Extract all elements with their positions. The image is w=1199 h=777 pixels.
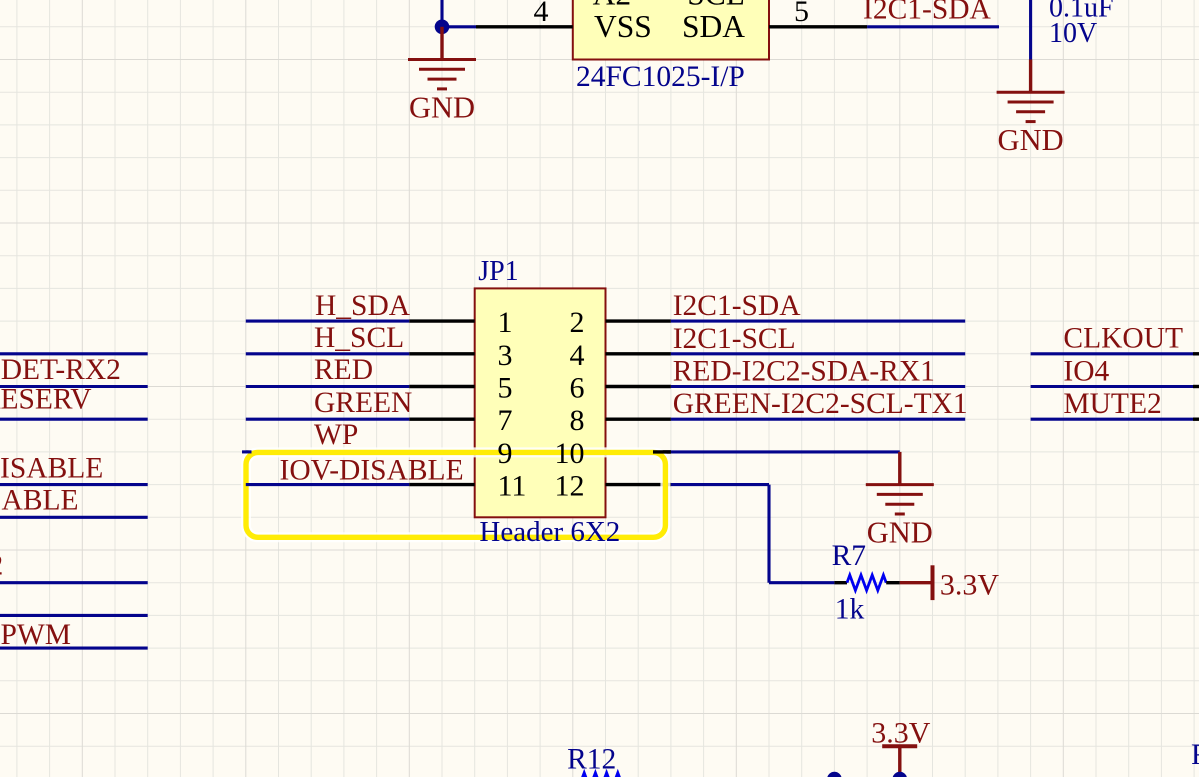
svg-text:VSS: VSS: [594, 9, 652, 44]
wire left row B: [0, 581, 148, 584]
wire RED: [246, 385, 409, 388]
junction node bottom right: [893, 772, 908, 777]
JP1 pin 5: [409, 385, 474, 388]
svg-text:H_SDA: H_SDA: [315, 290, 411, 322]
IC U1 24FC1025 body: [573, 0, 769, 60]
JP1 pin number 7: [498, 404, 513, 437]
svg-text:PWM: PWM: [1, 619, 71, 651]
pin stub at MUTE2 end: [1193, 418, 1199, 421]
svg-text:6: 6: [570, 372, 585, 405]
JP1 pin 9: [409, 450, 474, 453]
JP1 designator: [478, 256, 518, 287]
svg-text:3.3V: 3.3V: [940, 569, 1000, 602]
net label I2C1-SDA: [673, 290, 802, 322]
ground GND2: [997, 60, 1065, 158]
wire to R7: [769, 581, 834, 584]
resistor R7 left pin: [834, 581, 847, 584]
svg-text:I2C1-SCL: I2C1-SCL: [673, 323, 796, 355]
net label IO4: [1063, 355, 1109, 387]
svg-text:RED: RED: [314, 354, 373, 386]
svg-text:4: 4: [570, 339, 585, 372]
wire junction to U1 pin 4: [442, 25, 476, 28]
wire GREEN-I2C2-SCL-TX1: [671, 418, 965, 421]
JP1 pin 8: [606, 418, 671, 421]
R12 designator: [567, 744, 616, 776]
JP1 pin 2: [606, 319, 671, 322]
U1 pin name A2: [593, 0, 632, 12]
U1 pin name SDA: [682, 9, 745, 44]
wire left ESERV: [0, 418, 148, 421]
svg-text:10V: 10V: [1049, 18, 1097, 49]
JP1 pin number 3: [498, 339, 513, 372]
power 3.3V bottom label: [871, 716, 931, 749]
wire I2C1-SDA from U1 pin 5: [867, 25, 999, 28]
wire GREEN: [246, 418, 409, 421]
svg-text:GND: GND: [409, 91, 475, 125]
net label ISABLE (clipped): [0, 452, 103, 484]
svg-text:MUTE2: MUTE2: [1063, 388, 1161, 420]
net label DET-RX2: [1, 354, 121, 386]
R7 designator: [832, 540, 866, 572]
U1 value label 24FC1025-I/P: [576, 61, 745, 93]
svg-text:1: 1: [498, 306, 513, 339]
ground GND3: [866, 452, 934, 550]
capacitor voltage 10V: [1049, 18, 1097, 49]
svg-text:IOV-DISABLE: IOV-DISABLE: [0, 452, 103, 484]
wire capacitor C to GND: [1029, 0, 1032, 60]
resistor R12 zigzag (clipped): [581, 773, 620, 777]
wire pin10 to GND: [671, 450, 900, 453]
svg-text:IOV-DISABLE: IOV-DISABLE: [280, 454, 464, 486]
power 3.3V bottom bar: [882, 744, 917, 748]
net label CLKOUT: [1063, 323, 1183, 355]
wire left row C: [0, 614, 148, 617]
wire WP left nub: [242, 450, 252, 453]
wire pin12 horizontal: [671, 483, 769, 486]
capacitor value 0.1uF: [1049, 0, 1114, 23]
svg-text:3: 3: [498, 339, 513, 372]
svg-text:H_SCL: H_SCL: [314, 322, 404, 354]
R7 value 1k: [835, 593, 865, 625]
JP1 pin 10 nub: [653, 450, 671, 453]
svg-text:5: 5: [498, 372, 513, 405]
svg-text:2: 2: [0, 550, 3, 582]
JP1 pin number 9: [498, 437, 513, 470]
U1 pin 5 (SDA): [769, 25, 867, 28]
net label WP: [314, 419, 358, 451]
JP1 pin number 2: [570, 306, 585, 339]
svg-text:IO4: IO4: [1063, 355, 1109, 387]
U1 pin number 4: [534, 0, 549, 28]
net label ESERV (clipped): [0, 384, 92, 416]
JP1 pin 7: [409, 418, 474, 421]
wire MUTE2: [1031, 418, 1193, 421]
svg-text:Header 6X2: Header 6X2: [479, 516, 620, 548]
svg-text:GREEN-I2C2-SCL-TX1: GREEN-I2C2-SCL-TX1: [673, 388, 968, 420]
JP1 pin number 6: [570, 372, 585, 405]
wire IO4: [1031, 385, 1193, 388]
svg-text:5: 5: [794, 0, 809, 28]
svg-text:R1: R1: [1191, 739, 1199, 771]
wire left ISABLE: [0, 483, 148, 486]
svg-text:24FC1025-I/P: 24FC1025-I/P: [576, 61, 745, 93]
net label RED-I2C2-SDA-RX1: [673, 356, 935, 388]
JP1 pin number 11: [498, 470, 527, 503]
JP1 pin 4: [606, 352, 671, 355]
U1 pin 4 (VSS): [476, 25, 573, 28]
svg-text:DISABLE: DISABLE: [0, 485, 79, 517]
connector JP1 body: [475, 288, 606, 517]
net label RED: [314, 354, 373, 386]
wire left PWM: [0, 647, 148, 650]
JP1 pin 3: [409, 352, 474, 355]
U1 pin name VSS: [594, 9, 652, 44]
svg-text:I2C1-SDA: I2C1-SDA: [863, 0, 992, 26]
JP1 pin 12: [606, 483, 671, 486]
svg-text:9: 9: [498, 437, 513, 470]
wire CLKOUT: [1031, 352, 1193, 355]
svg-text:DET-RX2: DET-RX2: [1, 354, 121, 386]
net label H_SDA: [315, 290, 411, 322]
svg-text:JP1: JP1: [478, 256, 518, 287]
net label H_SCL: [314, 322, 404, 354]
JP1 pin number 5: [498, 372, 513, 405]
power 3.3V right bar: [931, 565, 935, 600]
net label MUTE2: [1063, 388, 1161, 420]
wire IOV-DISABLE (over highlight): [246, 483, 409, 486]
JP1 pin number 4: [570, 339, 585, 372]
svg-text:WP: WP: [314, 419, 358, 451]
svg-text:I2C1-SDA: I2C1-SDA: [673, 290, 802, 322]
svg-text:RESERV: RESERV: [0, 384, 92, 416]
svg-text:SDA: SDA: [682, 9, 745, 44]
wire I2C1-SDA: [671, 320, 965, 323]
JP1 pin number 10: [555, 437, 585, 470]
wire H_SDA: [246, 320, 409, 323]
svg-text:10: 10: [555, 437, 585, 470]
svg-text:7: 7: [498, 404, 513, 437]
svg-text:2: 2: [570, 306, 585, 339]
svg-text:12: 12: [555, 470, 585, 503]
selection highlight rounded rect: [246, 452, 665, 537]
net label GREEN: [314, 387, 412, 419]
pin stub at IO4 end: [1193, 385, 1199, 388]
wire H_SCL: [246, 352, 409, 355]
JP1 pin number 8: [570, 404, 585, 437]
partial designator right edge: [1191, 739, 1199, 771]
JP1 comment Header 6X2: [479, 516, 620, 548]
svg-text:4: 4: [534, 0, 549, 28]
svg-text:8: 8: [570, 404, 585, 437]
junction node bottom left: [827, 772, 842, 777]
power 3.3V right stub: [900, 581, 933, 584]
pin stub at CLKOUT end: [1193, 352, 1199, 355]
JP1 pin 10 (under highlight): [606, 450, 671, 453]
power 3.3V bottom stub: [898, 746, 901, 777]
svg-text:R7: R7: [832, 540, 866, 572]
net label I2C1-SDA (top): [863, 0, 992, 26]
net label GREEN-I2C2-SCL-TX1: [673, 388, 968, 420]
JP1 pin 11: [409, 483, 474, 486]
net label ABLE (clipped): [0, 485, 79, 517]
resistor R7 zigzag: [847, 575, 886, 590]
junction node at VSS: [435, 20, 450, 35]
wire RED-I2C2-SDA-RX1: [671, 385, 965, 388]
JP1 pin 6: [606, 385, 671, 388]
svg-text:1k: 1k: [835, 593, 865, 625]
net label IOV-DISABLE: [280, 454, 464, 486]
wire pin12 vertical: [767, 485, 770, 583]
JP1 pin number 1: [498, 306, 513, 339]
wire GND vertical into junction: [440, 0, 443, 27]
svg-text:GND: GND: [998, 123, 1064, 157]
U1 pin name SCL: [687, 0, 745, 12]
wire I2C1-SCL: [671, 352, 965, 355]
svg-text:GND: GND: [867, 516, 933, 550]
power 3.3V right label: [940, 569, 1000, 602]
svg-text:CLKOUT: CLKOUT: [1063, 323, 1183, 355]
wire left ABLE: [0, 516, 148, 519]
svg-text:11: 11: [498, 470, 527, 503]
wire left DET-RX2: [0, 385, 148, 388]
svg-text:GREEN: GREEN: [314, 387, 412, 419]
wire WP (under highlight): [246, 450, 409, 453]
ground GND1: [408, 27, 476, 125]
JP1 pin 1: [409, 319, 474, 322]
net label PWM (clipped): [1, 619, 71, 651]
U1 pin number 5: [794, 0, 809, 28]
net label I2C1-SCL: [673, 323, 796, 355]
JP1 pin number 12: [555, 470, 585, 503]
svg-text:R12: R12: [567, 744, 616, 776]
wire left row A: [0, 352, 148, 355]
svg-text:RED-I2C2-SDA-RX1: RED-I2C2-SDA-RX1: [673, 356, 935, 388]
resistor R7 right pin: [886, 581, 900, 584]
net label partial char: [0, 550, 3, 582]
